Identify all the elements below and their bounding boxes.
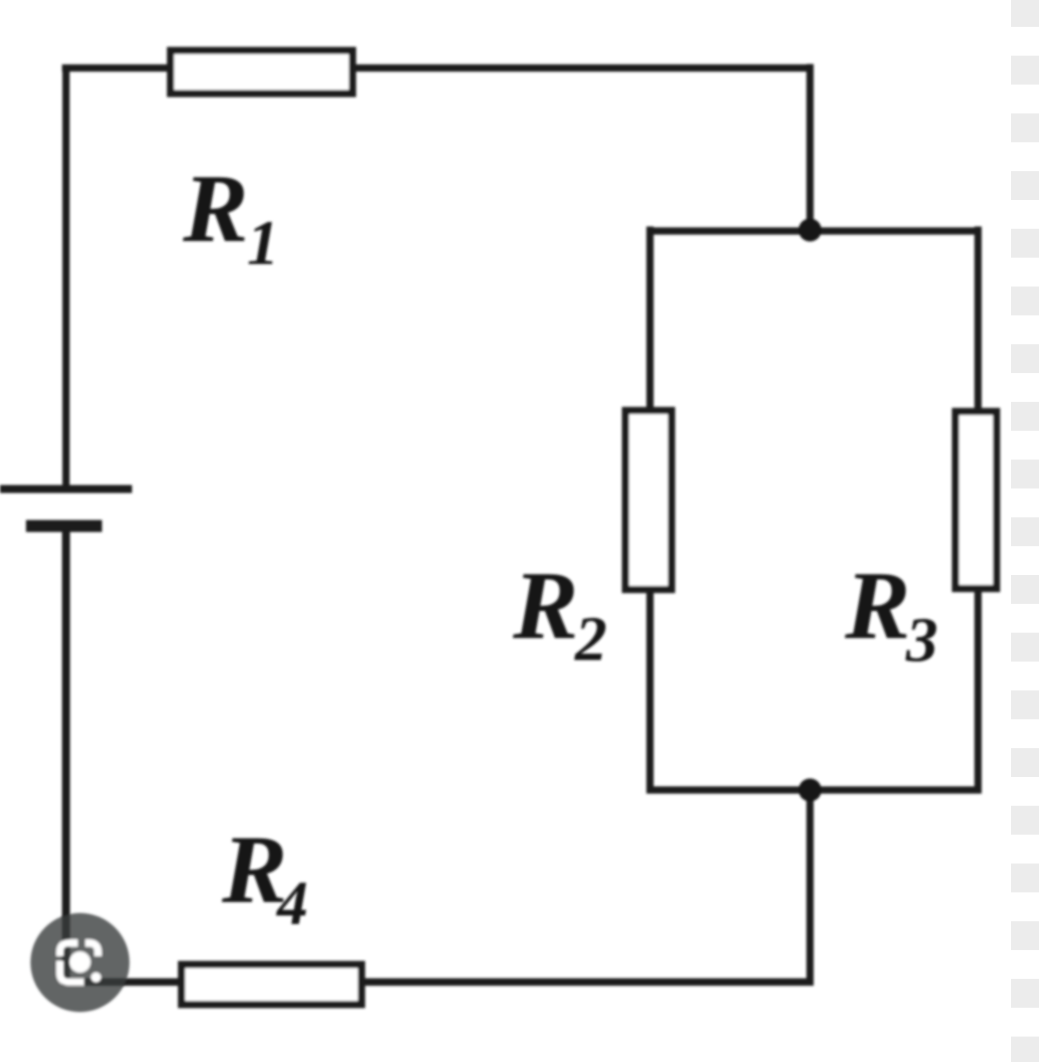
google lens button [31, 913, 130, 1012]
wire left vertical upper [62, 65, 69, 488]
svg-text:2: 2 [574, 603, 607, 674]
wire top rail of parallel pair [647, 227, 982, 234]
svg-text:1: 1 [247, 207, 279, 278]
resistor R4 body [182, 965, 362, 1005]
battery B long plate [0, 485, 132, 493]
resistor R1 body [171, 51, 353, 94]
resistor R3 body [956, 412, 997, 589]
wire R1 to top node vertical [806, 64, 813, 233]
wire left vertical lower [62, 532, 70, 986]
svg-text:R: R [512, 552, 578, 660]
wire right vertical to bottom node [806, 786, 813, 986]
svg-text:R: R [844, 552, 910, 660]
lens glyph top-left bracket [60, 943, 78, 956]
transparency checkerboard strip (right edge) [1011, 0, 1039, 1062]
node bottom junction dot [799, 779, 822, 802]
wire left branch vertical [646, 227, 653, 794]
wire bottom rail of parallel pair [647, 786, 982, 793]
wire right branch vertical [974, 227, 981, 794]
svg-text:3: 3 [905, 604, 938, 675]
lens glyph center dot [70, 952, 91, 973]
lens glyph top-right bracket [86, 943, 99, 956]
lens glyph corner dot [91, 973, 101, 983]
wire top horizontal [62, 64, 810, 71]
svg-text:4: 4 [276, 870, 308, 938]
battery B short plate [26, 520, 102, 532]
svg-text:R: R [182, 155, 248, 263]
resistor R2 body [626, 411, 672, 590]
lens glyph bottom-left bracket [60, 961, 84, 982]
wire bottom horizontal [65, 978, 814, 986]
node top junction dot [799, 219, 822, 242]
